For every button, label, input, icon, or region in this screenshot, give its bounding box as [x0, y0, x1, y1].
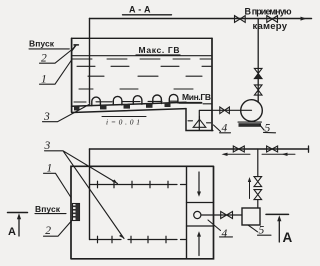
valve stack drop (plan) [257, 149, 259, 177]
up flow arrow beside stack [248, 177, 251, 199]
wire: inlet riser inside tank [89, 19, 91, 104]
water dashes row 1b [72, 58, 211, 60]
valve B1 on plan pipe [233, 146, 244, 152]
flow arrow left under plan pipe [222, 153, 251, 156]
down arrow in top cell [197, 172, 201, 197]
sloped channel bottom edge [72, 109, 186, 113]
svg-text:Макс. ГВ: Макс. ГВ [139, 45, 180, 55]
wire: inlet underline (plan) [35, 213, 66, 215]
tank rim (section) [72, 37, 212, 39]
svg-text:А: А [8, 226, 16, 238]
sump level dashes [188, 121, 211, 123]
water dashes row 2 [77, 65, 211, 67]
svg-text:4: 4 [222, 228, 228, 240]
plan pipe end bar [308, 146, 310, 152]
tank right wall (section) [211, 38, 213, 130]
svg-text:i=0.01: i=0.01 [106, 118, 140, 127]
scraper arc 5 [169, 94, 178, 102]
tank left wall (section) [71, 38, 73, 112]
svg-text:1: 1 [47, 163, 53, 175]
wire: inlet line to wall [29, 48, 69, 50]
min water level line [179, 102, 202, 104]
label 1 (plan) [44, 163, 72, 198]
pump square (plan) [242, 208, 260, 225]
pump base (section) [238, 121, 262, 123]
sump step wall [186, 109, 213, 131]
up arrow in bottom cell [197, 231, 201, 255]
valve V3 on discharge riser [254, 68, 262, 73]
cell divider 1 [187, 202, 214, 204]
valve V2 on top pipe [267, 16, 278, 23]
scraper arc 3 [133, 96, 142, 104]
svg-text:4: 4 [222, 123, 228, 135]
svg-text:3: 3 [44, 140, 51, 152]
svg-text:А - А: А - А [129, 5, 151, 15]
svg-text:5: 5 [259, 225, 265, 237]
water dashes row 4 [79, 88, 193, 90]
scraper arc 2 [113, 96, 122, 105]
valve B2 on plan pipe [267, 146, 278, 152]
pump suction pipe (section) [212, 109, 252, 111]
stack valve 2 (plan) [254, 190, 262, 200]
label 1 (section) [40, 61, 72, 86]
label 5 (plan) [248, 225, 271, 237]
valve on suction pipe [220, 107, 230, 114]
plan riser pipe [89, 149, 91, 240]
scraper arc 4 [153, 95, 162, 103]
section marker A left [8, 213, 28, 239]
scraper arc 1 [92, 97, 101, 106]
sump level triangle [193, 116, 206, 127]
svg-text:Впуск: Впуск [29, 38, 55, 48]
flow arrow right under plan pipe [262, 153, 295, 156]
pump intake circle (plan) [194, 211, 201, 218]
section title A-A [123, 5, 172, 15]
label 5 (section) [260, 122, 276, 134]
max water level line [72, 55, 212, 57]
pump circle (section) [241, 100, 263, 122]
valve on plan suction pipe [221, 212, 233, 219]
sump inner box [199, 110, 212, 130]
label 3 (plan) [44, 140, 125, 239]
wire: stack to pump square [257, 200, 259, 208]
label 2 (plan) [44, 221, 72, 238]
inlet gate box (plan) [73, 204, 80, 221]
svg-text:5: 5 [265, 122, 271, 134]
channel support blocks [74, 103, 171, 110]
valve V1 on top pipe [235, 16, 246, 23]
wire: plan drain pipe [90, 148, 309, 150]
plan tank outline [71, 166, 214, 258]
cell divider 2 [187, 225, 214, 227]
svg-text:В приемную: В приемную [245, 7, 292, 17]
svg-text:Впуск: Впуск [35, 204, 61, 214]
wire: top discharge pipe to receiving chamber [90, 18, 312, 20]
pump discharge riser [257, 19, 259, 103]
valve V4 on discharge riser [254, 85, 262, 95]
arrowhead on top pipe end [301, 17, 307, 21]
inlet gate flag (section) [72, 45, 79, 51]
label 3 (section) [43, 104, 91, 123]
stack valve 1 (plan) [254, 177, 262, 187]
sloped channel top edge [72, 102, 186, 106]
svg-text:А: А [283, 230, 293, 245]
svg-text:2: 2 [45, 225, 51, 237]
section marker A right [266, 214, 293, 245]
label 4 (section) [214, 123, 231, 135]
label 2 (section) [40, 50, 72, 65]
plan inner wall [186, 166, 188, 258]
perforated pipe 1 (plan) [90, 181, 186, 188]
perforated pipe 2 (plan) [90, 236, 186, 243]
slope label i=0.01 [102, 117, 146, 127]
label 4 (plan) [208, 220, 233, 240]
svg-text:Мин.ГВ: Мин.ГВ [182, 92, 211, 102]
suction pipe (plan) [201, 214, 242, 216]
water dashes row 3 [88, 75, 202, 77]
